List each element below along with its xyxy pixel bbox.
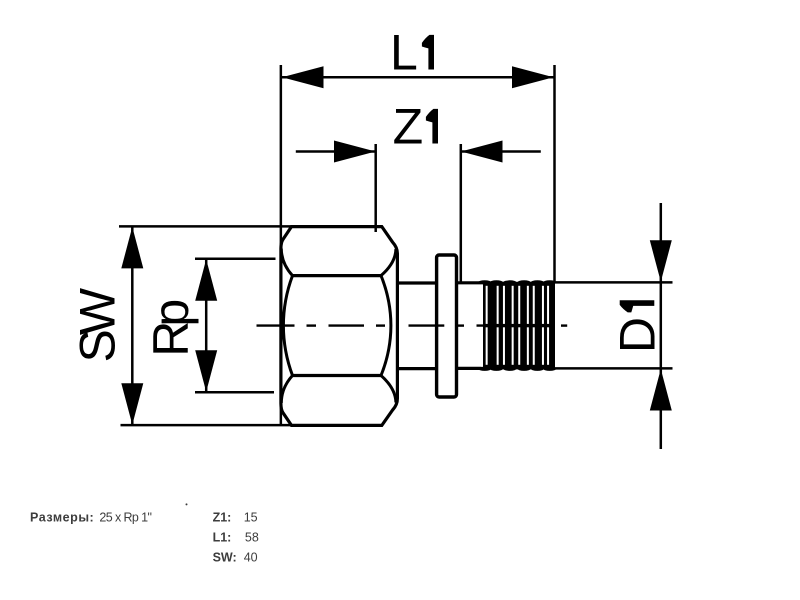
dimension D1 line xyxy=(660,203,663,449)
ribbed pipe-insert section base xyxy=(478,280,556,371)
svg-text:L: L xyxy=(390,25,418,81)
dimension Rp bottom extension line xyxy=(195,391,274,394)
dimension Z1 left extension line xyxy=(374,144,377,232)
dimension SW bottom arrow xyxy=(121,383,143,425)
svg-text:L1:: L1: xyxy=(213,531,232,545)
svg-text:Rp: Rp xyxy=(143,301,199,357)
dimension Z1 right extension line xyxy=(460,144,463,283)
svg-text:Размеры:: Размеры: xyxy=(30,511,94,525)
neck cylinder top edge xyxy=(397,281,436,284)
cylinder between flange and ribs bottom edge xyxy=(457,367,482,370)
svg-text:SW:: SW: xyxy=(213,550,237,564)
hex nut middle face right bulge arc xyxy=(381,276,391,376)
dimension Rp top arrow xyxy=(195,259,217,301)
svg-text:D: D xyxy=(609,317,665,353)
hex nut bottom band right chamfer arc xyxy=(381,376,396,403)
svg-text:25 x Rp 1": 25 x Rp 1" xyxy=(99,511,151,525)
dimension D1 top arrow xyxy=(650,240,672,281)
dimension D1 bottom arrow xyxy=(650,369,672,411)
hex nut lower face separation line xyxy=(293,374,382,377)
dimension Z1 left arrow xyxy=(334,141,376,163)
dimension SW line xyxy=(131,228,134,425)
rib bump arcs top edge xyxy=(478,280,491,284)
hex nut bottom band left chamfer arc xyxy=(281,376,292,404)
cylinder between flange and ribs top edge xyxy=(457,281,482,284)
hex nut middle face left bulge arc xyxy=(283,276,292,376)
hex nut upper face separation line xyxy=(293,274,382,277)
svg-text:Z1:: Z1: xyxy=(213,511,232,525)
hex nut top band left chamfer arc xyxy=(281,249,292,276)
flange disc xyxy=(437,255,457,397)
hex nut body outline xyxy=(281,227,398,426)
dimension SW top arrow xyxy=(121,227,143,269)
dimension Rp top extension line xyxy=(195,258,276,261)
dimension D1 bottom extension line xyxy=(548,367,673,370)
dimension L1 left extension line xyxy=(280,65,283,426)
dimension L1 right extension line xyxy=(553,65,556,283)
dimension SW bottom extension line xyxy=(121,424,293,427)
svg-text:Z: Z xyxy=(393,99,424,155)
footnote dot xyxy=(186,503,188,505)
dimension L1 line xyxy=(282,76,554,79)
rib groove white slits xyxy=(486,286,549,365)
dimension L1 left arrow xyxy=(282,66,324,88)
dimension Z1 left leader line xyxy=(296,150,375,153)
dimension Z1 right arrow xyxy=(461,141,503,163)
dimension D1 label xyxy=(609,300,665,353)
dimension Rp bottom arrow xyxy=(195,350,217,392)
center line dash-dot xyxy=(257,324,568,326)
svg-text:40: 40 xyxy=(244,550,258,564)
svg-text:SW: SW xyxy=(70,287,126,362)
svg-text:15: 15 xyxy=(244,511,258,525)
hex nut top band right chamfer arc xyxy=(381,249,396,276)
dimension Z1 right leader line xyxy=(461,150,541,153)
dimension D1 top extension line xyxy=(548,281,673,284)
dimension Rp line xyxy=(205,260,208,392)
svg-text:58: 58 xyxy=(245,531,259,545)
neck cylinder bottom edge xyxy=(397,367,436,370)
dimension L1 right arrow xyxy=(512,66,554,88)
dimension SW top extension line xyxy=(119,225,292,228)
rib bump arcs bottom edge xyxy=(478,367,491,371)
